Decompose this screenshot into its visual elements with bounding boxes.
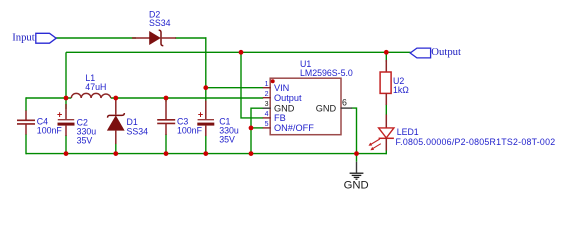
wire vertical left [65,52,67,98]
connector Input [36,33,56,43]
svg-text:47uH: 47uH [85,82,106,92]
connector Output [410,48,430,58]
pin 5 ON#/OFF [263,127,271,129]
LED LED1 [369,115,556,151]
svg-text:+: + [57,110,62,120]
wire C4 top branch [25,97,27,111]
svg-text:1kΩ: 1kΩ [393,85,409,95]
svg-text:LED1: LED1 [397,127,419,137]
diode D2 [132,9,176,45]
pin 6 GND right [341,107,353,109]
capacitor C3 [157,101,202,136]
svg-text:ON#/OFF: ON#/OFF [274,123,314,133]
pin 2 Output [263,97,271,99]
wire U2 to LED [385,104,387,115]
svg-text:+: + [198,110,203,120]
wire vertical D2 down to switch row [205,37,207,98]
capacitor C4 [17,111,62,136]
wire C1 top [205,98,207,102]
wire D1 bottom [115,143,117,154]
wire pin6 to ground [352,108,357,154]
LED arrows [371,139,380,144]
wire C3 top [165,98,167,102]
svg-text:6: 6 [342,98,347,108]
wire LED bottom [385,150,387,154]
svg-text:VIN: VIN [274,83,289,93]
svg-text:GND: GND [274,103,295,113]
wire input to D2 [56,37,136,39]
svg-text:SS34: SS34 [149,18,171,28]
svg-text:Output: Output [431,46,461,58]
wire C4 bottom branch [25,134,27,154]
inductor L1 [71,73,111,98]
resistor U2 [380,60,409,105]
svg-text:1: 1 [265,81,269,88]
diode D1 [107,98,148,144]
svg-text:FB: FB [274,113,286,123]
wire inductor row left [26,97,71,99]
wire output top rail [66,51,411,53]
node junction dots [239,50,244,55]
pin 3 GND [263,107,271,109]
svg-text:GND: GND [316,103,337,113]
svg-text:5: 5 [265,121,269,128]
svg-text:GND: GND [344,179,369,191]
wire GND pin3 to pin5 to rail [251,108,263,153]
pin 1 VIN [263,87,271,89]
svg-text:35V: 35V [77,136,93,146]
svg-text:F.0805.00006/P2-0805R1TS2-08T-: F.0805.00006/P2-0805R1TS2-08T-002 [396,137,556,147]
svg-text:SS34: SS34 [127,126,149,136]
wire ground rail [26,153,386,155]
svg-text:35V: 35V [219,135,235,145]
svg-text:Input: Input [12,31,35,43]
wire C1 bottom [205,135,207,154]
svg-text:100nF: 100nF [37,126,63,136]
wire inductor row right to pin2 [111,97,263,99]
pin 4 FB [263,117,271,119]
wire ON/OFF pin5 [251,127,263,129]
svg-text:3: 3 [265,101,269,108]
wire C2 bottom [65,135,67,154]
wire VIN pin1 [206,87,263,89]
wire C3 bottom [165,134,167,154]
svg-text:4: 4 [265,111,269,118]
svg-text:D1: D1 [127,117,138,127]
svg-text:Output: Output [274,93,302,103]
wire U2 top lead [385,52,387,62]
wire D2 cathode to corner [175,37,207,39]
wire C2 top [65,98,67,109]
svg-text:100nF: 100nF [177,126,203,136]
capacitor C1 (polarized) [197,101,239,145]
capacitor C2 (polarized) [57,104,96,146]
ground [344,154,369,192]
op-amp U1 (regulator LM2596S-5.0) [263,59,353,135]
svg-text:LM2596S-5.0: LM2596S-5.0 [300,68,353,78]
svg-text:2: 2 [265,91,269,98]
wire FB pin4 [241,52,263,118]
